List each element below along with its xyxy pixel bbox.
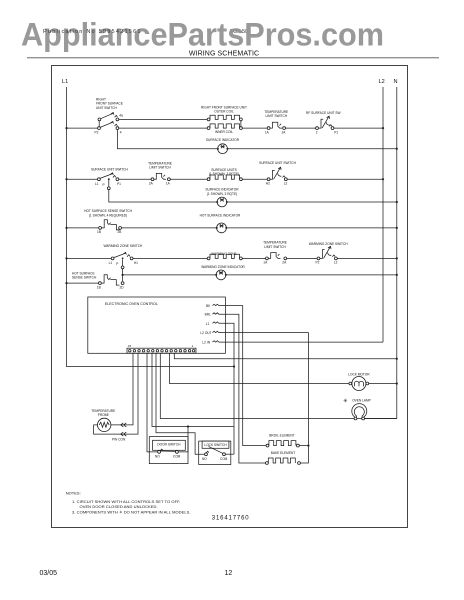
wire surface indicator drop row2: [109, 179, 217, 202]
resistor surface units coil: [207, 168, 242, 181]
junction row1 N: [396, 148, 398, 150]
wire row2 main L1 to switch: [67, 178, 98, 180]
resistor warming zone coil: [207, 252, 242, 260]
junction row4 N: [396, 257, 398, 259]
wire pin to lock chain junction: [152, 353, 234, 426]
svg-text:NO: NO: [202, 457, 207, 461]
svg-text:4a: 4a: [119, 113, 123, 117]
wire BK to broil element: [220, 306, 267, 446]
switch surface unit switch row2 left: [91, 168, 128, 190]
svg-text:L2: L2: [284, 182, 288, 186]
svg-text:(1 SHOWN, 4 REQUIRED): (1 SHOWN, 4 REQUIRED): [89, 213, 127, 217]
wire row1 indicator to N: [228, 148, 397, 150]
terminal L2 OUT: [200, 331, 219, 335]
svg-text:BRL: BRL: [205, 313, 211, 317]
svg-text:H2: H2: [266, 182, 270, 186]
notes text: [66, 491, 191, 515]
header publication text: [230, 29, 248, 35]
svg-text:1A: 1A: [263, 261, 268, 265]
wire pin to N rail: [174, 353, 396, 359]
svg-text:OUTER COIL: OUTER COIL: [214, 110, 234, 114]
wire surface indicator drop row1: [117, 130, 217, 149]
wire pin to lock motor line: [170, 353, 352, 383]
svg-text:1B: 1B: [97, 285, 101, 289]
svg-text:03/05: 03/05: [40, 570, 58, 577]
wire warming switch drop: [122, 260, 124, 282]
temperature probe: [91, 409, 126, 442]
wire row4 to warming coil: [133, 257, 207, 259]
lamp surface indicator row1: [206, 138, 240, 153]
svg-text:HOT SURFACE INDICATOR: HOT SURFACE INDICATOR: [200, 214, 241, 218]
svg-text:4: 4: [120, 131, 122, 135]
svg-text:N: N: [394, 79, 398, 85]
svg-text:L2: L2: [379, 79, 385, 85]
thermal switch temperature limit switch row4: [263, 241, 287, 265]
svg-text:2A: 2A: [282, 261, 287, 265]
wire row1 to RF switch: [286, 127, 316, 129]
wire row1 main L1 to switch P2: [67, 127, 98, 129]
door switch box: [149, 437, 188, 464]
svg-text:12: 12: [225, 570, 233, 577]
svg-text:L1: L1: [206, 322, 210, 326]
svg-text:OVEN LAMP: OVEN LAMP: [352, 399, 371, 403]
wire lock COM riser top link: [233, 426, 235, 428]
svg-text:UNIT SWITCH: UNIT SWITCH: [96, 106, 118, 110]
header underline: [27, 57, 439, 59]
border frame: [52, 66, 408, 528]
wire row1 to temp limit switch: [242, 127, 267, 129]
footer page text: [40, 570, 233, 577]
svg-text:L1: L1: [62, 79, 68, 85]
lamp hot surface indicator: [200, 214, 241, 233]
junction row2 N: [396, 201, 398, 203]
wire pin to probe bottom return: [94, 353, 138, 434]
lamp surface indicator row2: [205, 188, 239, 207]
wire row4 to N: [337, 257, 397, 259]
resistor broil element: [266, 434, 299, 448]
wire pin to door switch NO: [147, 353, 158, 452]
svg-text:P2: P2: [316, 261, 320, 265]
svg-text:L1: L1: [95, 182, 99, 186]
wire warming indicator to N: [226, 274, 397, 276]
svg-text:L2: L2: [334, 261, 338, 265]
svg-text:(1 SHOWN, 3 RQTE): (1 SHOWN, 3 RQTE): [207, 192, 237, 196]
terminal strip J1: [127, 344, 196, 353]
junction N wire: [396, 358, 398, 360]
junction lock motor N: [396, 382, 398, 384]
wire row3 indicator to N: [226, 227, 396, 229]
wire row5 main L1 to sense switch: [67, 282, 99, 284]
svg-text:P: P: [116, 262, 118, 266]
wire pin to probe top: [111, 353, 133, 425]
wire pin to lock switch NO: [156, 353, 205, 454]
svg-text:RF SURFACE UNIT SW: RF SURFACE UNIT SW: [306, 111, 340, 115]
terminal L2 IN: [202, 341, 219, 345]
svg-text:316417760: 316417760: [212, 516, 250, 522]
svg-text:2A: 2A: [149, 182, 154, 186]
wire door COM riser: [178, 427, 188, 452]
thermal switch hot surface sense switch row5: [72, 271, 124, 289]
wire row2 to right switch: [242, 178, 267, 180]
thermal switch temperature limit switch row2: [148, 161, 172, 185]
wire row1 inner branch: [119, 127, 207, 129]
svg-text:1: 1: [192, 344, 194, 348]
svg-text:SURFACE INDICATOR: SURFACE INDICATOR: [206, 138, 240, 142]
svg-text:LOCK MOTOR: LOCK MOTOR: [348, 372, 370, 376]
svg-text:P1: P1: [117, 182, 121, 186]
lamp warming zone indicator: [201, 265, 245, 280]
lock switch box: [199, 441, 231, 464]
svg-text:✳: ✳: [343, 397, 348, 404]
title WIRING SCHEMATIC: [189, 50, 259, 57]
svg-text:LIMIT SWITCH: LIMIT SWITCH: [266, 114, 288, 118]
wire row4 to temp limit: [242, 257, 265, 259]
connector pin con top: [121, 423, 127, 427]
wire warming indicator line: [123, 274, 217, 276]
junction row3 L1: [65, 227, 67, 229]
svg-text:NOTES:: NOTES:: [66, 491, 81, 496]
svg-text:LIMIT SWITCH: LIMIT SWITCH: [149, 166, 171, 170]
junction row2 L1: [65, 178, 67, 180]
switch surface unit switch row2 right: [259, 161, 296, 186]
junction row3 N: [396, 227, 398, 229]
svg-text:WIRING SCHEMATIC: WIRING SCHEMATIC: [189, 50, 259, 57]
svg-text:2B: 2B: [118, 230, 122, 234]
svg-text:L2 IN: L2 IN: [202, 341, 210, 345]
switch warming zone switch left: [104, 244, 144, 266]
wire BRL to bake element: [220, 314, 266, 463]
svg-text:SURFACE UNIT SWITCH: SURFACE UNIT SWITCH: [259, 161, 296, 165]
resistor right front surface unit inner coil: [207, 124, 242, 134]
junction door COM node: [187, 425, 189, 427]
svg-text:COM: COM: [220, 457, 228, 461]
junction L1 line to riser: [233, 365, 235, 367]
thermal switch hot surface sense switch row3: [84, 209, 132, 234]
wire row1 to L2: [334, 127, 383, 129]
wire lock COM to riser: [225, 453, 234, 455]
junction warming indicator N: [396, 274, 398, 276]
svg-text:3. COMPONENTS WITH ✳ DO NOT: 3. COMPONENTS WITH ✳ DO NOT APPEAR IN AL…: [72, 509, 191, 514]
svg-text:PIN CON: PIN CON: [112, 438, 126, 442]
svg-text:BAKE ELEMENT: BAKE ELEMENT: [271, 451, 295, 455]
terminal L1: [206, 322, 220, 326]
wire row2 to L2: [287, 178, 383, 180]
contact warming drop upper: [121, 266, 124, 269]
wire L2 OUT to elements common: [220, 333, 309, 463]
connector pin con bottom: [121, 432, 127, 436]
svg-text:2D: 2D: [120, 285, 125, 289]
junction row4 L1: [65, 257, 67, 259]
thermal switch temperature limit switch row1: [264, 110, 288, 134]
svg-text:SENSE SWITCH: SENSE SWITCH: [72, 276, 97, 280]
svg-text:WARMING ZONE SWITCH: WARMING ZONE SWITCH: [309, 242, 349, 246]
wire row1 outer branch: [119, 118, 207, 120]
svg-text:L1: L1: [109, 261, 113, 265]
terminal BK: [206, 304, 220, 308]
wire lock motor to N: [369, 383, 397, 385]
wire row3 to indicator: [122, 227, 217, 229]
switch right front surface unit switch P2: [95, 98, 123, 135]
junction warming indicator: [122, 274, 124, 276]
svg-text:H1: H1: [134, 261, 138, 265]
junction broil common: [307, 445, 309, 447]
L1 rail wire: [67, 87, 235, 367]
motor lock motor: [348, 372, 370, 390]
svg-text:2A: 2A: [282, 130, 287, 134]
svg-text:1A: 1A: [265, 130, 270, 134]
svg-text:2: 2: [316, 130, 318, 134]
wire row4 main L1 to warming switch: [67, 257, 112, 259]
wire row2 to surface units coil: [170, 178, 207, 180]
svg-text:DOOR SWITCH: DOOR SWITCH: [157, 442, 181, 446]
junction row2 L2: [382, 178, 384, 180]
electronic oven control box: [88, 297, 226, 353]
wire pin to oven lamp line: [160, 353, 396, 418]
svg-text:SURFACE UNIT SWITCH: SURFACE UNIT SWITCH: [91, 168, 128, 172]
lamp oven lamp: [352, 399, 371, 420]
resistor bake element: [266, 451, 301, 465]
svg-text:LIMIT SWITCH: LIMIT SWITCH: [264, 245, 286, 249]
svg-text:INNER COIL: INNER COIL: [215, 130, 233, 134]
svg-text:LOCK SWITCH: LOCK SWITCH: [204, 443, 227, 447]
N rail wire: [396, 87, 398, 419]
svg-text:P2: P2: [95, 131, 99, 135]
svg-text:Publication No 5995421561: Publication No 5995421561: [43, 29, 142, 35]
svg-text:WARMING ZONE SWITCH: WARMING ZONE SWITCH: [104, 244, 144, 248]
wire coil merge vertical: [240, 121, 242, 127]
svg-text:COM: COM: [173, 455, 181, 459]
svg-text:PROBE: PROBE: [98, 413, 109, 417]
wire L2 IN to L2 rail: [220, 341, 384, 343]
svg-text:WARMING ZONE INDICATOR: WARMING ZONE INDICATOR: [201, 265, 245, 269]
terminal BRL: [205, 313, 220, 317]
switch warming zone switch right: [309, 242, 349, 265]
wire L1 terminal riser: [220, 323, 235, 454]
L2 rail wire: [382, 87, 384, 342]
svg-text:1B: 1B: [97, 230, 101, 234]
svg-text:15: 15: [128, 344, 132, 348]
resistor right front surface unit outer coil: [201, 105, 247, 121]
wire row2 to temp limit: [119, 178, 151, 180]
svg-text:P1: P1: [334, 130, 338, 134]
switch RF surface unit sw: [306, 111, 340, 135]
svg-text:NO: NO: [155, 455, 160, 459]
svg-text:ELECTRONIC OVEN CONTROL: ELECTRONIC OVEN CONTROL: [105, 302, 158, 306]
wire row4 to warming switch right: [287, 257, 317, 259]
svg-text:P: P: [103, 183, 105, 187]
header publication number over watermark: [43, 29, 142, 35]
wire row2 indicator to N: [227, 201, 397, 203]
wire broil right to common: [299, 445, 308, 447]
wire row3 main L1 to sense switch: [67, 227, 99, 229]
junction row1 L2: [382, 127, 384, 129]
junction row1 L1: [65, 127, 67, 129]
wire N rail bottom corner to lamp: [365, 418, 397, 420]
watermark AppliancePartsPros.com: [21, 17, 384, 53]
svg-text:L2 OUT: L2 OUT: [200, 331, 211, 335]
junction row5 L1: [65, 282, 67, 284]
svg-text:1A: 1A: [166, 182, 171, 186]
svg-text:BROIL ELEMENT: BROIL ELEMENT: [269, 434, 294, 438]
svg-text:BK: BK: [206, 304, 211, 308]
